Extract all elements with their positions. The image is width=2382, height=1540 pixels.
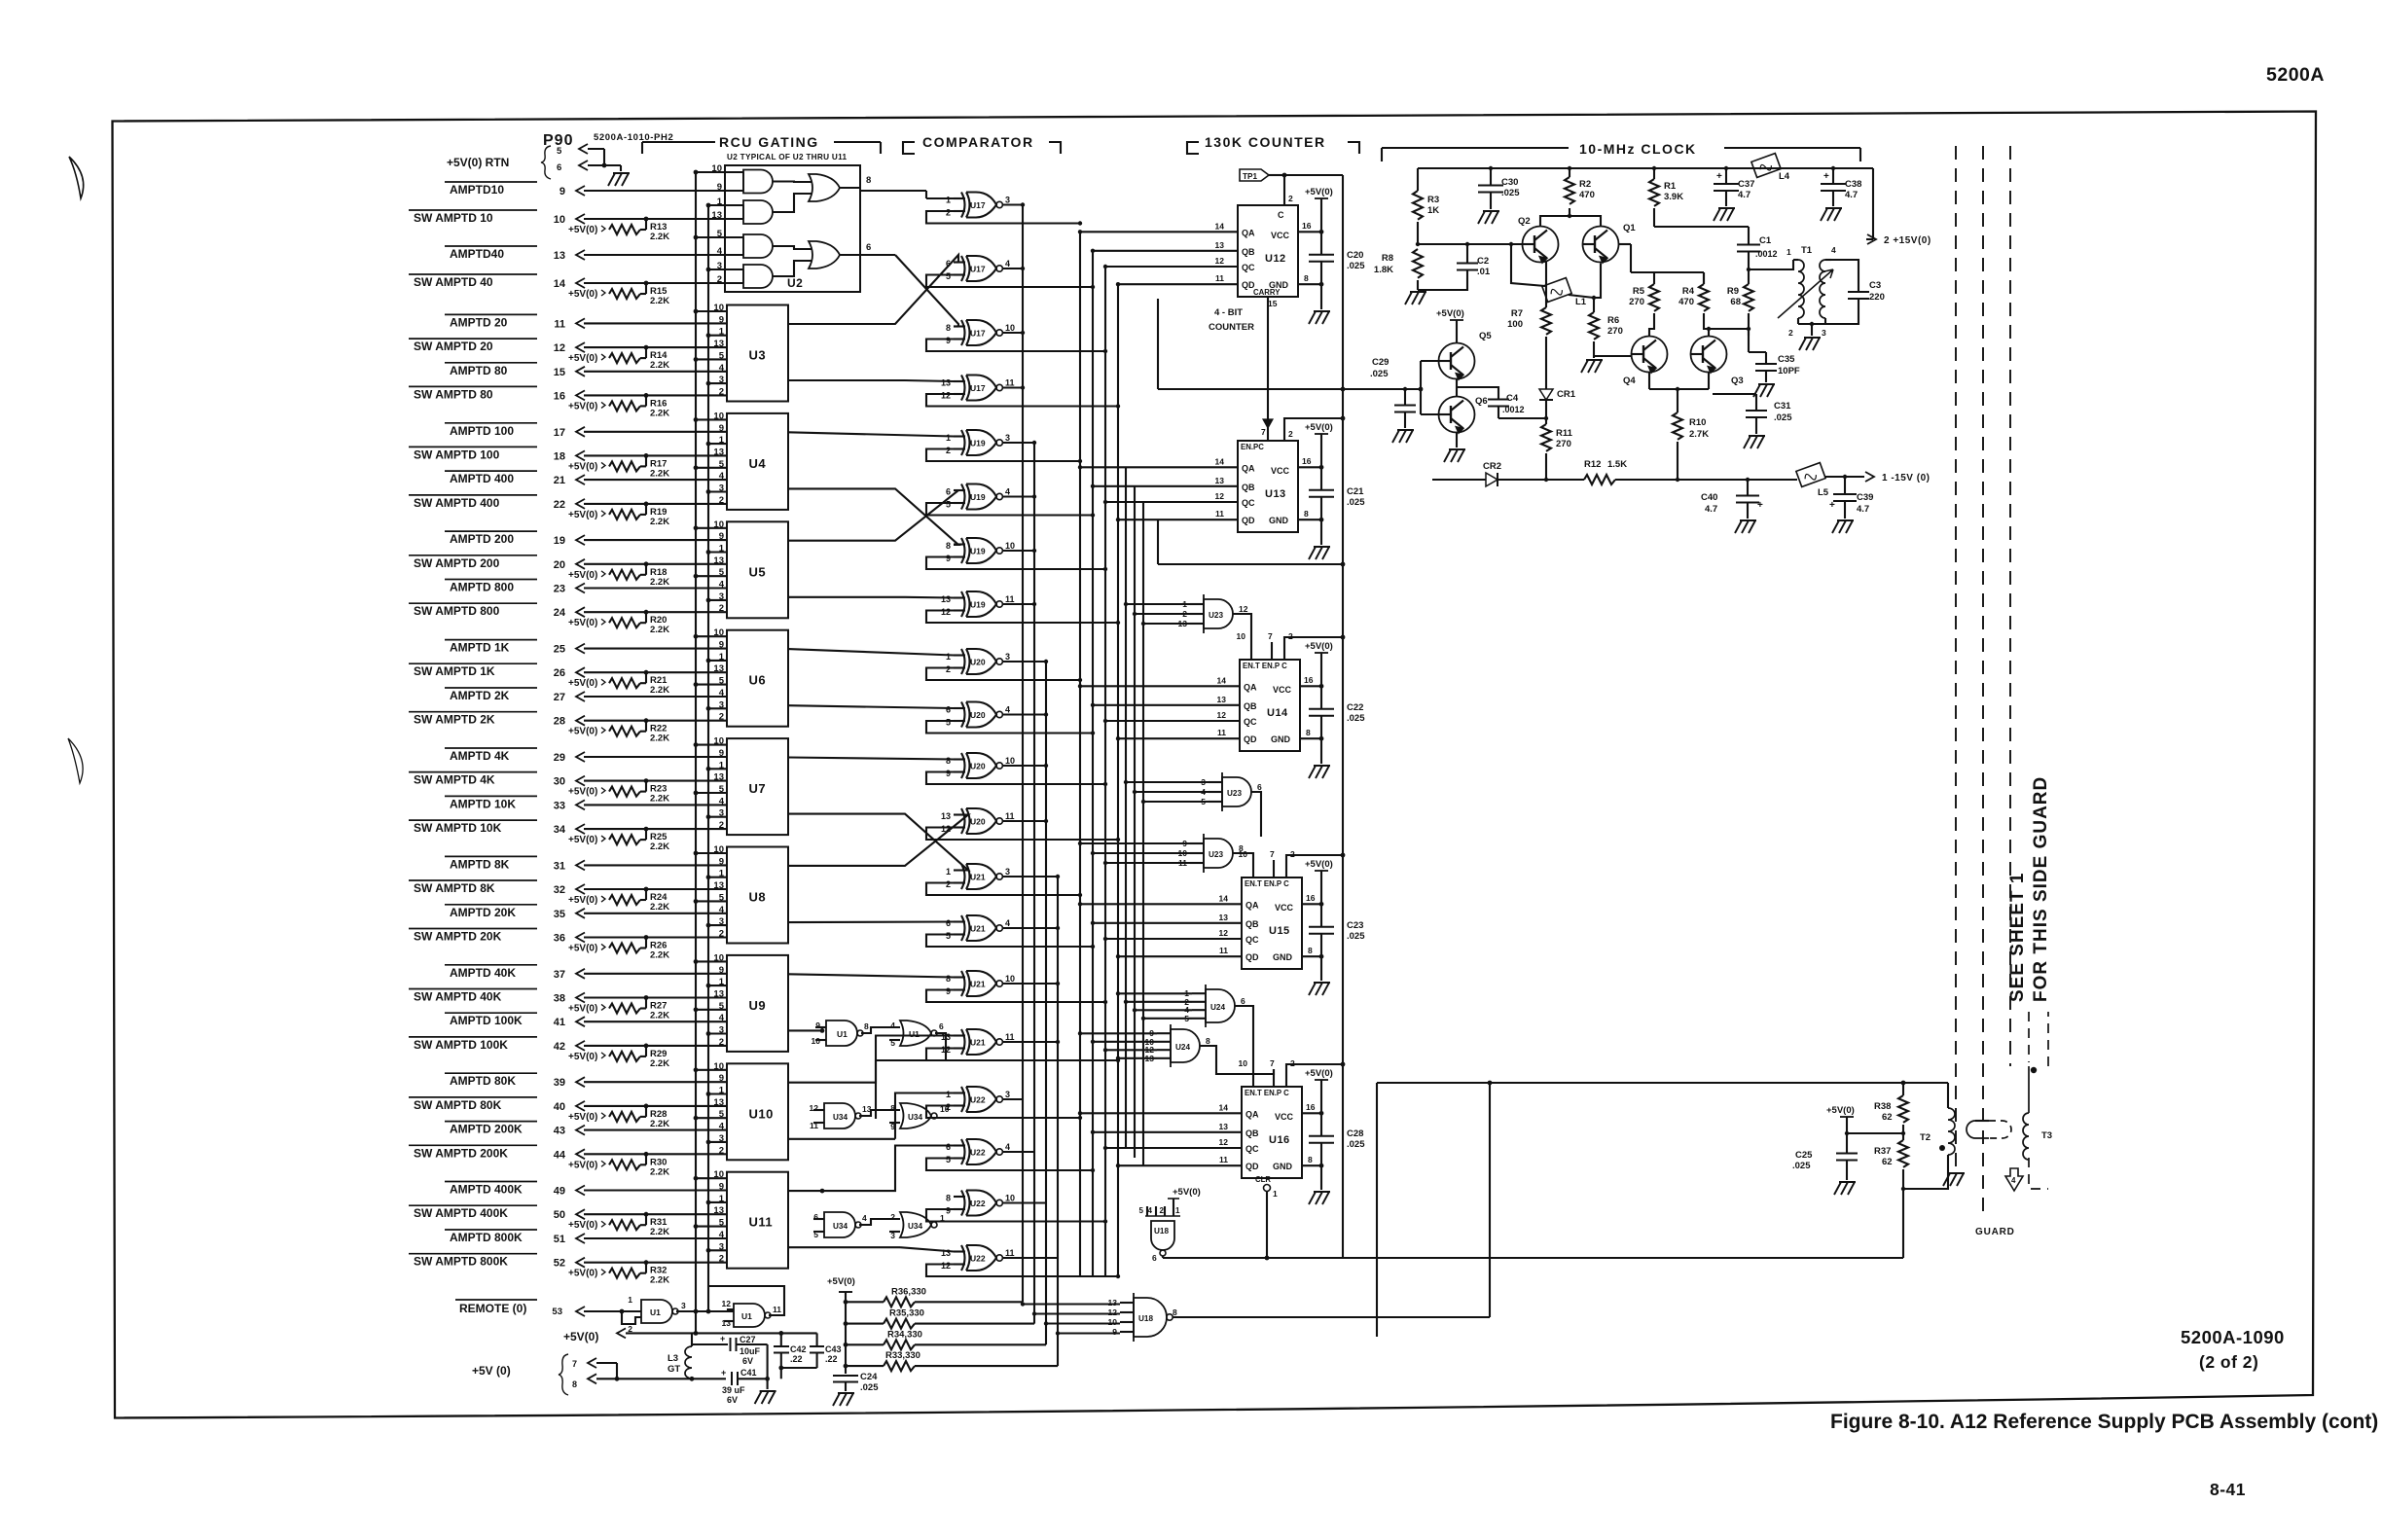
svg-text:6: 6 — [866, 242, 871, 253]
svg-text:+5V(0): +5V(0) — [1436, 308, 1464, 319]
svg-text:R34,330: R34,330 — [887, 1329, 922, 1340]
wire Q1 base right — [1619, 243, 1632, 245]
svg-text:8: 8 — [946, 974, 951, 984]
svg-text:GND: GND — [1273, 952, 1293, 962]
svg-text:AMPTD 10K: AMPTD 10K — [450, 797, 516, 810]
svg-text:10: 10 — [1005, 756, 1015, 766]
wire U7 pin 10 — [696, 744, 727, 746]
svg-text:AMPTD 400: AMPTD 400 — [450, 472, 514, 485]
svg-text:15: 15 — [1268, 299, 1278, 308]
svg-text:4: 4 — [1005, 487, 1010, 497]
svg-text:2: 2 — [1288, 194, 1293, 203]
wire clock top rail — [1418, 167, 1799, 169]
svg-text:AMPTD 1K: AMPTD 1K — [450, 641, 510, 655]
svg-text:R7: R7 — [1511, 308, 1523, 319]
svg-text:L1: L1 — [1575, 297, 1587, 307]
gate U2 AND 4 — [743, 265, 773, 288]
svg-text:U23: U23 — [1209, 850, 1223, 859]
testpoint TP1 — [1240, 169, 1269, 181]
svg-text:2: 2 — [1788, 328, 1793, 338]
transistor Q5 — [1439, 343, 1475, 379]
svg-text:R3: R3 — [1427, 195, 1439, 205]
svg-text:11: 11 — [1005, 1248, 1015, 1258]
svg-text:+: + — [1716, 171, 1722, 182]
wire C1 to T1 — [1749, 260, 1793, 269]
svg-text:U1: U1 — [837, 1029, 848, 1039]
wire U1b out — [876, 1033, 946, 1119]
svg-text:4: 4 — [719, 1230, 725, 1240]
svg-text:U20: U20 — [970, 817, 986, 827]
ground at Q6 — [1444, 449, 1465, 462]
svg-text:44: 44 — [554, 1149, 566, 1161]
gate U23 a — [1204, 599, 1233, 628]
IC U8 outline — [727, 847, 788, 944]
svg-text:1: 1 — [717, 197, 723, 207]
wire gate out 14 — [1003, 927, 1059, 929]
wire U16 top pins — [1252, 1069, 1254, 1087]
svg-text:1.5K: 1.5K — [1607, 459, 1627, 470]
wire Q5/Q6 base tie — [1421, 360, 1439, 362]
svg-text:16: 16 — [554, 390, 565, 402]
svg-text:8: 8 — [946, 323, 951, 333]
svg-text:R38: R38 — [1874, 1101, 1891, 1112]
svg-text:13: 13 — [941, 811, 951, 821]
svg-text:U34: U34 — [833, 1113, 848, 1122]
svg-text:U3: U3 — [749, 348, 767, 363]
svg-text:1: 1 — [940, 1213, 945, 1223]
svg-text:AMPTD 800: AMPTD 800 — [450, 581, 514, 594]
svg-text:+: + — [720, 1334, 725, 1343]
wire U4.8 to gate U19-1 — [788, 432, 954, 436]
svg-text:AMPTD40: AMPTD40 — [450, 247, 504, 261]
wire U10 pin 10 — [696, 1069, 727, 1071]
svg-text:1: 1 — [719, 760, 725, 770]
svg-text:SW AMPTD 200K: SW AMPTD 200K — [414, 1146, 508, 1160]
svg-text:470: 470 — [1678, 297, 1694, 307]
svg-text:AMPTD 40K: AMPTD 40K — [450, 966, 516, 980]
wire gate out 1 — [1003, 203, 1024, 205]
svg-text:24: 24 — [554, 607, 566, 619]
IC U4 outline — [727, 413, 788, 510]
svg-text:3: 3 — [719, 916, 724, 927]
capacitor C30 .025 — [1490, 168, 1492, 186]
wire U2 pin 9 stub — [725, 190, 743, 192]
svg-text:2: 2 — [1290, 849, 1295, 859]
svg-text:EN.T EN.P C: EN.T EN.P C — [1245, 879, 1289, 888]
wire U12 GND pin 8 — [1298, 283, 1321, 285]
gate U1 nor b — [900, 1021, 931, 1046]
svg-text:2.2K: 2.2K — [650, 517, 669, 527]
svg-text:6: 6 — [557, 162, 561, 173]
svg-text:11: 11 — [554, 318, 565, 330]
svg-text:+5V(0): +5V(0) — [1305, 187, 1333, 197]
svg-text:R9: R9 — [1727, 286, 1739, 297]
svg-text:1: 1 — [719, 652, 725, 663]
svg-text:6: 6 — [1241, 996, 1245, 1006]
svg-text:+5V(0): +5V(0) — [568, 401, 597, 412]
gate U21 xnor 15 — [961, 971, 965, 996]
svg-text:10: 10 — [1108, 1317, 1118, 1327]
resistor R6 270 — [1589, 312, 1599, 340]
svg-text:U19: U19 — [970, 439, 986, 448]
svg-text:1: 1 — [1175, 1206, 1180, 1215]
svg-text:2: 2 — [946, 446, 951, 455]
wire gate out 15 — [1003, 983, 1059, 985]
svg-text:10: 10 — [711, 163, 722, 174]
ground at C41 node — [767, 1379, 769, 1389]
svg-text:3.9K: 3.9K — [1664, 192, 1683, 202]
svg-text:2: 2 — [946, 879, 951, 889]
svg-text:2.2K: 2.2K — [650, 1119, 669, 1129]
wire U18v output 6 — [1162, 1256, 1164, 1258]
wire U18h input 1 — [1023, 1303, 1120, 1305]
svg-text:11: 11 — [1005, 811, 1015, 821]
svg-text:270: 270 — [1629, 297, 1644, 307]
svg-text:16: 16 — [1306, 1102, 1316, 1112]
svg-text:C29: C29 — [1372, 357, 1389, 368]
svg-text:8: 8 — [1306, 728, 1311, 737]
bus QA vertical — [1079, 232, 1081, 1276]
wire U18v inputs — [1146, 1206, 1148, 1216]
svg-text:U21: U21 — [970, 980, 986, 989]
svg-text:14: 14 — [1215, 221, 1225, 231]
svg-text:SW AMPTD 8K: SW AMPTD 8K — [414, 881, 495, 895]
svg-text:32: 32 — [554, 884, 565, 896]
ground at P90 5-6 — [620, 165, 622, 171]
svg-text:43: 43 — [554, 1126, 565, 1137]
svg-text:.025: .025 — [1370, 369, 1389, 379]
svg-text:SW AMPTD 80K: SW AMPTD 80K — [414, 1098, 502, 1112]
svg-text:+5V(0): +5V(0) — [568, 353, 597, 364]
svg-text:13: 13 — [713, 1205, 724, 1216]
svg-text:+5V(0): +5V(0) — [568, 618, 597, 628]
svg-text:4: 4 — [719, 580, 725, 591]
svg-text:SEE SHEET 1: SEE SHEET 1 — [2007, 873, 2028, 1003]
svg-text:2: 2 — [890, 1212, 895, 1222]
svg-text:13: 13 — [713, 880, 724, 891]
gate U23 c — [1204, 839, 1233, 868]
svg-text:AMPTD 400K: AMPTD 400K — [450, 1183, 523, 1197]
IC U15 counter — [1242, 877, 1302, 969]
svg-text:4: 4 — [719, 796, 725, 806]
svg-text:U20: U20 — [970, 658, 986, 667]
IC U6 outline — [727, 630, 788, 727]
wire U6 pin 1 — [708, 660, 727, 662]
resistor R3 1K — [1417, 168, 1419, 191]
svg-text:AMPTD 20K: AMPTD 20K — [450, 906, 516, 919]
svg-text:AMPTD10: AMPTD10 — [450, 183, 504, 197]
svg-text:+5V(0): +5V(0) — [568, 787, 597, 798]
svg-text:+5V(0): +5V(0) — [568, 1112, 597, 1123]
wire -15V output — [1865, 472, 1874, 482]
svg-text:QA: QA — [1242, 228, 1255, 237]
svg-text:3: 3 — [1005, 433, 1010, 443]
svg-text:7: 7 — [1270, 1058, 1275, 1068]
wire U5.6 to gate U19-4 — [788, 596, 905, 598]
svg-text:L3: L3 — [668, 1353, 678, 1364]
svg-text:10: 10 — [713, 411, 724, 421]
svg-text:12: 12 — [941, 607, 951, 617]
svg-text:QC: QC — [1245, 1144, 1259, 1154]
svg-text:VCC: VCC — [1275, 903, 1294, 913]
wire gate out 3 — [1003, 332, 1024, 334]
wire U20 feedback input 10 — [926, 721, 1093, 734]
wire U13 QD — [1118, 519, 1238, 520]
svg-text:2: 2 — [719, 1254, 724, 1265]
transistor Q2 — [1523, 227, 1559, 263]
wire guard loop left — [1376, 1083, 1378, 1337]
svg-text:SW AMPTD 10K: SW AMPTD 10K — [414, 821, 502, 835]
svg-text:U34: U34 — [908, 1113, 922, 1122]
svg-text:QA: QA — [1242, 463, 1255, 473]
gate U22 xnor 19 — [961, 1191, 965, 1216]
svg-text:10: 10 — [713, 1169, 724, 1180]
resistor R8 1.8K — [1413, 249, 1423, 278]
svg-text:5: 5 — [557, 146, 562, 157]
svg-text:.025: .025 — [1347, 713, 1365, 724]
bus tap vertical 2 — [1134, 486, 1136, 1158]
svg-text:1: 1 — [946, 1090, 951, 1099]
svg-text:7: 7 — [1268, 631, 1273, 641]
svg-text:AMPTD 100K: AMPTD 100K — [450, 1014, 523, 1027]
svg-text:+5V(0): +5V(0) — [1305, 859, 1333, 870]
gate U22 xnor 18 — [961, 1139, 965, 1164]
svg-text:4.7: 4.7 — [1738, 190, 1750, 200]
wire gate out 8 — [1003, 603, 1035, 605]
svg-text:AMPTD 8K: AMPTD 8K — [450, 857, 510, 871]
wire clock input — [1343, 388, 1421, 390]
svg-text:12: 12 — [1215, 491, 1225, 501]
wire U14 GND pin 8 — [1300, 737, 1321, 739]
wire gate out 17 — [1003, 1098, 1024, 1100]
svg-text:6: 6 — [1257, 782, 1262, 792]
svg-text:8: 8 — [946, 756, 951, 766]
wire U9 pin 10 — [696, 960, 727, 962]
svg-text:9: 9 — [717, 182, 722, 193]
gate U20 xnor 11 — [961, 753, 965, 778]
svg-text:+5V(0): +5V(0) — [568, 1004, 597, 1015]
wire U15 VCC pin 16 — [1302, 903, 1321, 905]
svg-text:U12: U12 — [1265, 253, 1286, 265]
wire U5 pin 3 — [708, 599, 727, 601]
capacitor C1 .0012 — [1748, 227, 1750, 245]
svg-text:13: 13 — [1219, 913, 1229, 922]
IC U16 counter — [1242, 1087, 1302, 1178]
svg-text:5: 5 — [719, 459, 725, 470]
svg-text:12: 12 — [722, 1299, 732, 1308]
capacitor C21 .025 — [1320, 467, 1322, 490]
node AMPTD40 label — [445, 245, 537, 247]
svg-text:C2: C2 — [1477, 256, 1489, 267]
svg-text:U19: U19 — [970, 600, 986, 610]
svg-text:52: 52 — [554, 1258, 565, 1270]
wire gate out 16 — [1003, 1041, 1059, 1043]
bus comparator outputs 3 — [1045, 662, 1047, 1344]
svg-text:5: 5 — [719, 1109, 725, 1120]
wire U19 feedback input 7 — [926, 557, 1105, 570]
svg-text:U22: U22 — [970, 1095, 986, 1105]
svg-text:GND: GND — [1273, 1162, 1293, 1171]
svg-text:37: 37 — [554, 969, 565, 981]
svg-text:4.7: 4.7 — [1845, 190, 1858, 200]
IC U13 counter — [1238, 441, 1298, 532]
svg-text:U6: U6 — [749, 673, 767, 688]
svg-text:QC: QC — [1244, 717, 1257, 727]
svg-text:9: 9 — [719, 856, 724, 867]
svg-text:.025: .025 — [1347, 1139, 1365, 1150]
wire TP1 to clock bus — [1284, 174, 1343, 176]
svg-text:2.2K: 2.2K — [650, 625, 669, 635]
svg-text:3: 3 — [719, 1241, 724, 1252]
wire U18h input 2 — [1034, 1312, 1120, 1314]
resistor R4 470 — [1703, 272, 1705, 284]
svg-text:.025: .025 — [1774, 412, 1792, 423]
ground at U14 — [1320, 738, 1322, 764]
svg-text:2.7K: 2.7K — [1689, 429, 1709, 440]
svg-text:C23: C23 — [1347, 920, 1363, 931]
svg-text:GT: GT — [668, 1364, 680, 1375]
capacitor C40 4.7 — [1747, 480, 1749, 496]
wire U6 pin 3 — [708, 707, 727, 709]
svg-text:4: 4 — [1831, 245, 1836, 255]
svg-text:1: 1 — [719, 1194, 725, 1204]
wire gate out 18 — [1003, 1151, 1035, 1153]
svg-text:8: 8 — [1304, 273, 1309, 283]
svg-text:QB: QB — [1244, 701, 1257, 711]
IC U14 counter — [1240, 660, 1300, 751]
wire cross U2.6/U3.8 — [895, 255, 958, 327]
svg-text:8-41: 8-41 — [2210, 1480, 2246, 1499]
svg-text:9: 9 — [815, 1021, 820, 1030]
gate U2 OR 1 — [809, 174, 840, 201]
wire Q2 emitter — [1545, 261, 1547, 307]
svg-text:SW AMPTD 40: SW AMPTD 40 — [414, 275, 493, 289]
svg-text:U19: U19 — [970, 547, 986, 556]
svg-text:8: 8 — [1206, 1036, 1210, 1046]
svg-text:1: 1 — [1273, 1189, 1278, 1199]
svg-text:11: 11 — [1005, 378, 1015, 388]
ground at guard line 1 — [1943, 1173, 1965, 1186]
gate U17 xnor 2 — [961, 256, 965, 281]
svg-text:29: 29 — [554, 752, 565, 764]
svg-text:U8: U8 — [749, 890, 767, 905]
svg-text:16: 16 — [1304, 675, 1314, 685]
wire U16 VCC pin 16 — [1302, 1112, 1321, 1114]
node AMPTD 20 label — [445, 313, 537, 315]
svg-text:+5V(0): +5V(0) — [568, 289, 597, 300]
svg-text:CARRY: CARRY — [1253, 288, 1281, 297]
ground at C38 — [1821, 208, 1842, 221]
svg-text:2: 2 — [719, 1145, 724, 1156]
svg-text:1: 1 — [946, 196, 951, 205]
guard dashed line 3 — [2009, 146, 2011, 1066]
wire U19 feedback input 8 — [926, 611, 1118, 624]
wire gate out 10 — [1003, 713, 1047, 715]
svg-text:T3: T3 — [2041, 1130, 2052, 1141]
wire U13 VCC pin 16 — [1298, 466, 1321, 468]
svg-text:3: 3 — [719, 375, 724, 385]
node SW AMPTD 4K label — [409, 771, 537, 773]
wire U23c out — [1233, 853, 1253, 860]
wire TP1 to U12 pin 2 — [1283, 175, 1285, 205]
gate U1 nand a — [826, 1021, 857, 1046]
wire Q6 emitter — [1456, 433, 1458, 448]
svg-text:QD: QD — [1244, 734, 1257, 744]
svg-text:13: 13 — [1217, 695, 1227, 704]
svg-text:U21: U21 — [970, 1038, 986, 1048]
wire U8.6 to gate U21-2 — [788, 920, 954, 923]
svg-text:4: 4 — [1005, 259, 1010, 269]
wire gate out 7 — [1003, 550, 1035, 552]
svg-text:12: 12 — [1217, 710, 1227, 720]
capacitor C41 39uF — [731, 1372, 733, 1385]
wire gate out 6 — [1003, 495, 1035, 497]
svg-text:53: 53 — [552, 1307, 562, 1317]
node SW AMPTD 10 label — [409, 209, 537, 211]
svg-text:U22: U22 — [970, 1254, 986, 1264]
svg-text:5: 5 — [719, 350, 725, 361]
wire U9 pin 3 — [708, 1032, 727, 1034]
svg-text:C40: C40 — [1701, 492, 1717, 503]
svg-text:.0012: .0012 — [1755, 249, 1778, 259]
svg-text:+5V (0): +5V (0) — [472, 1364, 511, 1378]
transistor Q4 — [1632, 337, 1668, 373]
svg-text:470: 470 — [1579, 190, 1595, 200]
svg-text:8: 8 — [1308, 1155, 1313, 1164]
gate U20 xnor 10 — [961, 702, 965, 728]
svg-text:10: 10 — [713, 1061, 724, 1072]
wire U16 QA — [1080, 1112, 1242, 1114]
svg-text:1: 1 — [628, 1295, 632, 1305]
svg-text:CR2: CR2 — [1483, 461, 1501, 472]
svg-text:8: 8 — [946, 1194, 951, 1203]
capacitor C28 .025 — [1320, 1113, 1322, 1136]
svg-text:13: 13 — [713, 447, 724, 457]
IC U7 outline — [727, 738, 788, 835]
svg-text:18: 18 — [554, 450, 565, 462]
svg-text:4: 4 — [719, 688, 725, 698]
node AMPTD 400 label — [445, 470, 537, 472]
node AMPTD 200 label — [445, 530, 537, 532]
svg-text:2.2K: 2.2K — [650, 360, 669, 371]
wire U20 feedback input 11 — [926, 772, 1105, 785]
svg-text:9: 9 — [719, 314, 724, 325]
inductor L5 — [1796, 463, 1825, 487]
svg-text:1: 1 — [719, 1086, 725, 1096]
svg-text:C1: C1 — [1759, 235, 1772, 246]
wire U14 QC — [1105, 720, 1240, 722]
svg-text:270: 270 — [1556, 439, 1571, 449]
svg-text:62: 62 — [1882, 1157, 1893, 1167]
node AMPTD 8K label — [445, 855, 537, 857]
svg-text:1: 1 — [1786, 247, 1791, 257]
svg-text:L5: L5 — [1818, 487, 1829, 498]
svg-text:9: 9 — [719, 1073, 724, 1084]
svg-text:3: 3 — [719, 1025, 724, 1036]
svg-text:U9: U9 — [749, 998, 767, 1013]
wire +15V output — [1872, 168, 1874, 239]
svg-text:1: 1 — [719, 544, 725, 555]
svg-text:5: 5 — [719, 1218, 725, 1229]
capacitor C2 .01 — [1466, 244, 1468, 255]
svg-text:R2: R2 — [1579, 179, 1591, 190]
guard dashed line 2 — [1982, 146, 1984, 1216]
wire U12 QB — [1093, 250, 1238, 252]
svg-text:R1: R1 — [1664, 181, 1677, 192]
svg-text:12: 12 — [554, 342, 565, 354]
wire U4 pin 10 — [696, 418, 727, 420]
svg-text:1: 1 — [719, 869, 725, 879]
